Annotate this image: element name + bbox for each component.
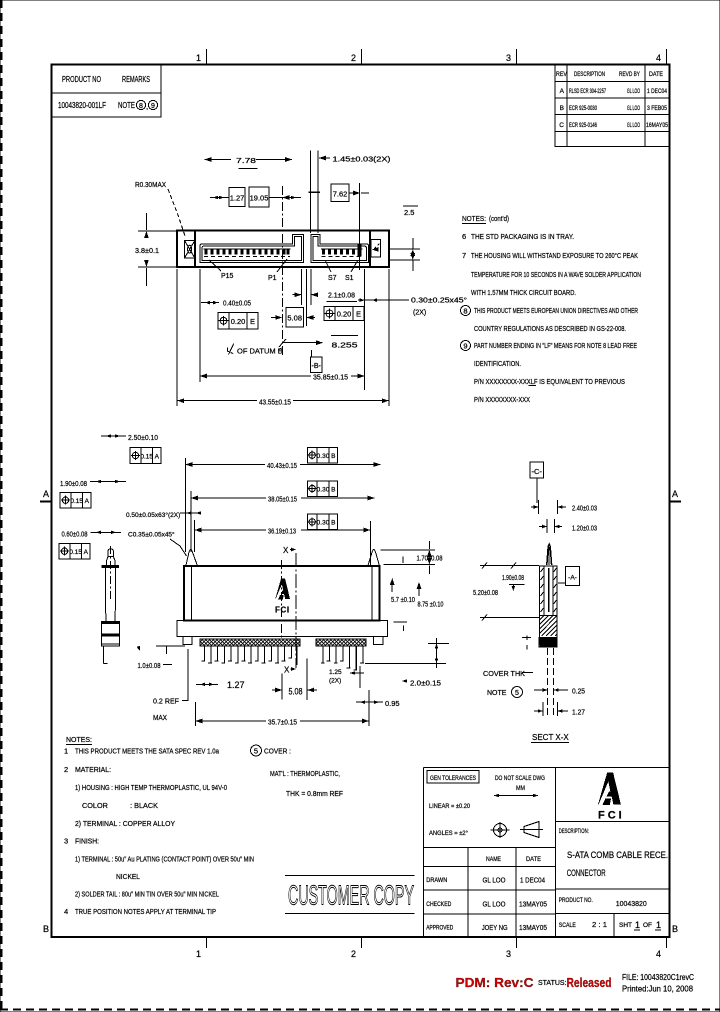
svg-text:0.30: 0.30 <box>317 520 330 527</box>
svg-text:19.05: 19.05 <box>250 194 269 203</box>
svg-text:1: 1 <box>196 53 201 63</box>
collar <box>102 565 120 568</box>
svg-text:,: , <box>146 102 148 111</box>
svg-text:(2X): (2X) <box>329 678 341 685</box>
svg-text:2: 2 <box>351 53 356 63</box>
svg-text:E: E <box>250 317 255 326</box>
dim 35.85 <box>199 269 201 382</box>
left extension lines <box>184 458 186 552</box>
svg-text:ECR 925-0146: ECR 925-0146 <box>569 122 597 129</box>
svg-text:1.70±0.08: 1.70±0.08 <box>417 556 443 563</box>
svg-text:A: A <box>560 88 565 95</box>
svg-text:C0.35±0.05x45°: C0.35±0.05x45° <box>128 531 175 539</box>
dim 0.40+-0.05 <box>201 302 219 304</box>
right pins <box>321 646 364 670</box>
svg-text:THE HOUSING WILL WITHSTAND EXP: THE HOUSING WILL WITHSTAND EXPOSURE TO 2… <box>471 251 638 260</box>
svg-text:0.40±0.05: 0.40±0.05 <box>223 299 251 308</box>
svg-text:10043820-001LF: 10043820-001LF <box>58 101 106 110</box>
right cavity (signal) slot, double outline <box>311 234 369 262</box>
svg-text:LINEAR = ±0.20: LINEAR = ±0.20 <box>429 803 470 810</box>
svg-text:1.27: 1.27 <box>227 680 245 690</box>
solder tail strips (hatched) <box>200 639 366 646</box>
svg-text:IDENTIFICATION.: IDENTIFICATION. <box>474 359 521 368</box>
svg-text:35.85±0.15: 35.85±0.15 <box>313 373 348 382</box>
svg-text:THIS PRODUCT MEETS EUROPEAN UN: THIS PRODUCT MEETS EUROPEAN UNION DIRECT… <box>474 306 638 315</box>
svg-text:9: 9 <box>151 103 155 110</box>
svg-text:A: A <box>43 489 49 499</box>
svg-text:GL LOO: GL LOO <box>483 902 506 909</box>
dim 1.20 <box>546 519 548 533</box>
svg-text:PRODUCT NO: PRODUCT NO <box>62 75 101 84</box>
pin tip <box>547 544 552 565</box>
svg-text:R0.30MAX: R0.30MAX <box>135 180 166 189</box>
svg-text:B: B <box>331 453 335 460</box>
right end cap <box>369 231 371 268</box>
dim 7.78 <box>205 157 212 162</box>
svg-text:1.0±0.08: 1.0±0.08 <box>138 661 161 670</box>
svg-text:ECR 925-0030: ECR 925-0030 <box>569 105 597 112</box>
svg-text:NOTE: NOTE <box>487 690 507 697</box>
position frame 0.20 E (left) <box>218 313 258 330</box>
svg-text:13MAY05: 13MAY05 <box>519 902 547 909</box>
right flange step lines <box>393 621 407 623</box>
svg-text:REV: REV <box>556 71 568 78</box>
cover note <box>251 745 262 756</box>
centerline and section line <box>281 560 283 640</box>
svg-text:2) SOLDER TAIL : 80u" MIN TIN: 2) SOLDER TAIL : 80u" MIN TIN OVER 50u" … <box>75 890 219 899</box>
svg-text:SCALE: SCALE <box>559 922 577 929</box>
third angle projection symbols <box>494 824 507 837</box>
dim 35.7 <box>196 720 267 722</box>
svg-text:FCI: FCI <box>598 810 625 822</box>
svg-text:MAT'L : THERMOPLASTIC,: MAT'L : THERMOPLASTIC, <box>270 769 340 778</box>
svg-text:WITH 1.57MM THICK CIRCUIT BOAR: WITH 1.57MM THICK CIRCUIT BOARD. <box>471 288 576 297</box>
svg-text:7: 7 <box>462 251 466 260</box>
name/date table <box>423 847 555 849</box>
flange tabs <box>183 637 192 645</box>
left punched dashed edge <box>1 0 3 1012</box>
svg-text:TEMPERATURE FOR 10 SECONDS IN: TEMPERATURE FOR 10 SECONDS IN A WAVE SOL… <box>471 270 641 279</box>
svg-text:ANGLES = ±2°: ANGLES = ±2° <box>429 829 468 837</box>
zone row labels <box>40 489 681 934</box>
signal pin strip with teeth <box>321 248 363 250</box>
svg-text:A: A <box>155 454 160 461</box>
svg-text:2: 2 <box>64 765 68 774</box>
svg-text:CONNECTOR: CONNECTOR <box>567 868 606 878</box>
svg-text:RLSD ECR 304-2257: RLSD ECR 304-2257 <box>569 88 606 95</box>
zone ticks & labels top <box>196 49 667 65</box>
svg-text:-A-: -A- <box>568 575 577 582</box>
cover body <box>540 566 558 616</box>
svg-text:NICKEL: NICKEL <box>116 872 140 881</box>
svg-text:MATERIAL:: MATERIAL: <box>75 765 111 774</box>
svg-text:6: 6 <box>462 232 466 241</box>
svg-text:-C-: -C- <box>531 467 542 476</box>
svg-text:1.90±0.08: 1.90±0.08 <box>502 575 524 582</box>
svg-text:5.7 ±0.10: 5.7 ±0.10 <box>391 597 415 604</box>
svg-text:DO NOT SCALE DWG: DO NOT SCALE DWG <box>495 775 545 782</box>
svg-text:THIS PRODUCT MEETS THE SATA SP: THIS PRODUCT MEETS THE SATA SPEC REV 1.0… <box>75 747 220 756</box>
svg-text:5.08: 5.08 <box>287 314 302 323</box>
svg-text:1) TERMINAL : 50u" Au PLATING: 1) TERMINAL : 50u" Au PLATING (CONTACT P… <box>75 855 254 864</box>
power pin strip with teeth <box>204 248 291 250</box>
svg-text:5.08: 5.08 <box>289 687 303 697</box>
svg-text:THK = 0.8mm REF: THK = 0.8mm REF <box>286 789 343 798</box>
svg-text:C: C <box>559 122 564 129</box>
svg-text:8.255: 8.255 <box>332 341 358 350</box>
svg-text:8.75 ±0.10: 8.75 ±0.10 <box>418 602 444 609</box>
svg-text:Released: Released <box>567 975 612 990</box>
datum A flag <box>566 567 580 586</box>
svg-text:S-ATA COMB CABLE RECE.: S-ATA COMB CABLE RECE. <box>567 850 668 860</box>
svg-text:1.20±0.03: 1.20±0.03 <box>572 524 597 533</box>
svg-text:REVD BY: REVD BY <box>619 71 640 78</box>
zone ticks & labels bottom <box>196 937 667 959</box>
svg-text:2.40±0.03: 2.40±0.03 <box>572 504 597 513</box>
revision table top-right <box>555 65 670 147</box>
svg-text:COVER :: COVER : <box>264 747 291 756</box>
svg-text:0.15: 0.15 <box>69 549 82 556</box>
svg-text:0.50±0.05x63°(2X): 0.50±0.05x63°(2X) <box>126 511 180 519</box>
svg-text:APPROVED: APPROVED <box>426 926 454 932</box>
svg-text:1: 1 <box>656 920 661 930</box>
svg-text:P1: P1 <box>268 275 277 282</box>
dim 1.27 bottom <box>196 683 218 685</box>
svg-text:1.90±0.08: 1.90±0.08 <box>60 479 87 488</box>
svg-text:SHT: SHT <box>619 922 632 929</box>
dim 8.255 <box>279 339 286 347</box>
left end cap <box>194 231 196 268</box>
frame 0.15 A (mid) <box>60 493 91 509</box>
svg-text:PRODUCT NO.: PRODUCT NO. <box>559 897 593 904</box>
dim 40.43 <box>185 464 265 466</box>
svg-text:2.1±0.08: 2.1±0.08 <box>328 291 355 300</box>
FCI logo on body <box>275 578 290 599</box>
svg-text:3: 3 <box>64 837 68 846</box>
svg-text:OF DATUM B: OF DATUM B <box>237 347 283 356</box>
svg-text:1: 1 <box>196 949 201 959</box>
svg-text:COVER THK: COVER THK <box>483 671 525 678</box>
svg-text:4: 4 <box>656 53 661 63</box>
svg-text:1.27: 1.27 <box>230 194 245 203</box>
svg-text:A: A <box>85 498 90 505</box>
gap extension lines <box>300 269 302 305</box>
centerline datum B <box>281 186 283 355</box>
svg-text:0.30: 0.30 <box>317 453 330 460</box>
dim 2.5 right cap <box>389 248 420 250</box>
svg-text:B: B <box>672 924 678 934</box>
hatched base <box>540 616 558 638</box>
dim 1.27 <box>542 702 544 716</box>
datum B box <box>311 357 323 373</box>
dim 1.70 right <box>381 549 435 551</box>
svg-text:10043820: 10043820 <box>616 899 647 908</box>
svg-text:CUSTOMER COPY: CUSTOMER COPY <box>288 880 414 911</box>
svg-text:PART NUMBER ENDING IN "LF" MEA: PART NUMBER ENDING IN "LF" MEANS FOR NOT… <box>474 341 637 350</box>
svg-text:1.27: 1.27 <box>572 708 585 717</box>
svg-text:7.78: 7.78 <box>236 156 256 165</box>
connector body outline <box>177 231 389 268</box>
boxed dim 1.27 / 19.05 <box>210 197 229 199</box>
svg-text:4: 4 <box>656 949 661 959</box>
svg-text:B: B <box>560 105 564 112</box>
datum C box <box>530 462 544 478</box>
svg-text:0.95: 0.95 <box>385 699 400 708</box>
outer lines <box>422 768 424 938</box>
svg-text:2 : 1: 2 : 1 <box>592 920 607 929</box>
svg-text:GL LOO: GL LOO <box>627 88 640 95</box>
boxed dim 7.62 <box>331 184 349 202</box>
svg-text:2) TERMINAL : COPPER ALLOY: 2) TERMINAL : COPPER ALLOY <box>75 819 175 828</box>
svg-text:3 FEB05: 3 FEB05 <box>647 105 667 112</box>
svg-text:REMARKS: REMARKS <box>122 75 150 84</box>
svg-text:DRAWN: DRAWN <box>426 878 447 884</box>
svg-text:1: 1 <box>64 747 68 756</box>
main border frame <box>52 65 670 938</box>
product table top-left <box>52 65 162 118</box>
shaft <box>105 568 107 622</box>
svg-text:1 DEC04: 1 DEC04 <box>647 88 667 95</box>
svg-text:FCI: FCI <box>275 606 290 615</box>
svg-text:COLOR : BLACK: COLOR : BLACK <box>82 801 158 810</box>
dim 1.45+-0.03(2X) <box>319 156 326 161</box>
svg-text:8: 8 <box>139 103 143 110</box>
svg-text:9: 9 <box>463 342 467 351</box>
flange <box>177 621 387 637</box>
svg-text:NOTES:: NOTES: <box>462 214 486 223</box>
svg-text:DESCRIPTION: DESCRIPTION <box>574 71 605 78</box>
svg-text:FILE: 10043820C1revC: FILE: 10043820C1revC <box>622 973 694 982</box>
svg-text:1.45±0.03(2X): 1.45±0.03(2X) <box>333 157 391 164</box>
svg-text:1 DEC04: 1 DEC04 <box>520 878 545 885</box>
svg-text:DATE: DATE <box>526 856 542 863</box>
svg-text:5: 5 <box>254 747 258 756</box>
svg-text:GL LOO: GL LOO <box>483 878 506 885</box>
svg-text:7.62: 7.62 <box>333 190 348 199</box>
svg-text:0.20: 0.20 <box>231 317 246 326</box>
svg-text:1: 1 <box>635 920 640 930</box>
svg-text:Printed:Jun 10, 2008: Printed:Jun 10, 2008 <box>622 985 694 994</box>
svg-text:16MAY05: 16MAY05 <box>646 122 668 129</box>
svg-text:X: X <box>284 666 290 675</box>
left pins <box>204 646 296 665</box>
dim 5.7 / 8.75 <box>391 580 393 592</box>
left extension lines <box>480 565 539 567</box>
tail <box>103 646 105 664</box>
svg-text:NOTE: NOTE <box>118 101 135 110</box>
svg-text:3.8±0.1: 3.8±0.1 <box>135 246 159 255</box>
guide wings <box>186 550 198 567</box>
svg-text:3: 3 <box>506 949 511 959</box>
base block <box>102 622 120 647</box>
svg-text:1.25: 1.25 <box>329 669 342 676</box>
body <box>184 566 379 621</box>
svg-text:GEN TOLERANCES: GEN TOLERANCES <box>430 775 477 782</box>
dim 5.08 <box>281 673 283 699</box>
svg-text:43.55±0.15: 43.55±0.15 <box>259 398 291 407</box>
dim 36.19 <box>195 529 266 531</box>
svg-text:0.2 REF: 0.2 REF <box>153 697 179 706</box>
CL OF DATUM B <box>227 344 234 355</box>
svg-text:0.20: 0.20 <box>337 310 352 319</box>
small tick marks left of hatch <box>526 636 528 641</box>
position frame 0.20 E (right) <box>324 307 364 321</box>
extension lines key post <box>310 151 312 234</box>
svg-text:8: 8 <box>463 307 467 316</box>
svg-text:DESCRIPTION:: DESCRIPTION: <box>559 829 589 835</box>
svg-text:A: A <box>672 489 678 499</box>
svg-text:13MAY05: 13MAY05 <box>519 925 547 932</box>
svg-text:A: A <box>84 549 89 556</box>
svg-text:0.60±0.08: 0.60±0.08 <box>62 530 88 539</box>
svg-text:GL LOO: GL LOO <box>627 105 640 112</box>
svg-text:2: 2 <box>351 949 356 959</box>
svg-text:0.30±0.25x45°: 0.30±0.25x45° <box>411 297 467 305</box>
FCI logo <box>598 773 621 806</box>
dim 0.25 <box>534 689 548 691</box>
svg-text:THE STD PACKAGING IS IN TRAY.: THE STD PACKAGING IS IN TRAY. <box>471 232 574 241</box>
svg-text:5: 5 <box>515 690 519 697</box>
svg-text:TRUE POSITION NOTES APPLY AT T: TRUE POSITION NOTES APPLY AT TERMINAL TI… <box>75 907 216 916</box>
svg-text:S7: S7 <box>328 275 337 282</box>
pin dome tip <box>108 549 113 557</box>
dim 2.0 <box>428 643 449 645</box>
svg-text:0.15: 0.15 <box>140 454 153 461</box>
svg-text:P/N XXXXXXXX-XXXLF IS EQUIVALE: P/N XXXXXXXX-XXXLF IS EQUIVALENT TO PREV… <box>474 377 625 386</box>
bottom dashed tear line <box>0 1009 720 1011</box>
svg-text:4: 4 <box>64 907 68 916</box>
svg-text:38.05±0.15: 38.05±0.15 <box>268 495 297 504</box>
svg-text:SECT X-X: SECT X-X <box>532 733 569 742</box>
svg-text:(2X): (2X) <box>413 310 426 317</box>
svg-text:P/N XXXXXXXX-XXX: P/N XXXXXXXX-XXX <box>474 395 530 404</box>
svg-text:MAX: MAX <box>153 713 167 722</box>
svg-text:P15: P15 <box>221 273 234 280</box>
svg-text:GL LOO: GL LOO <box>627 122 640 129</box>
svg-text:36.19±0.13: 36.19±0.13 <box>268 527 296 536</box>
dim 43.55 <box>176 269 178 406</box>
svg-text:40.43±0.15: 40.43±0.15 <box>267 461 297 470</box>
tolerances area <box>427 771 479 784</box>
svg-text:FINISH:: FINISH: <box>75 837 99 846</box>
chamfer leader 0.30 <box>358 299 409 301</box>
dim 2.40 <box>538 500 540 514</box>
svg-text:E: E <box>356 310 361 319</box>
svg-text:DATE: DATE <box>649 71 664 78</box>
boxed dim 6.08 <box>271 317 282 319</box>
left cavity (power) L-shaped slot, double outline <box>200 234 304 262</box>
dim 0.95 <box>356 701 383 703</box>
svg-text:CHECKED: CHECKED <box>426 902 452 908</box>
svg-text:35.7±0.15: 35.7±0.15 <box>268 718 297 727</box>
svg-text:X: X <box>283 546 289 555</box>
svg-text:OF: OF <box>643 922 652 929</box>
frame 0.15 A (top) <box>130 448 161 464</box>
svg-text:-B-: -B- <box>312 363 322 370</box>
svg-text:(cont'd): (cont'd) <box>489 214 509 223</box>
svg-text:B: B <box>331 520 335 527</box>
svg-text:1) HOUSING : HIGH TEMP THERMOP: 1) HOUSING : HIGH TEMP THERMOPLASTIC, UL… <box>75 783 227 792</box>
svg-text:MM: MM <box>516 785 525 792</box>
svg-text:0.15: 0.15 <box>70 498 83 505</box>
dim 38.05 <box>191 497 266 499</box>
svg-text:NAME: NAME <box>486 856 502 863</box>
svg-text:NOTES:: NOTES: <box>66 735 92 744</box>
dim 2.1+-0.08 <box>293 294 302 296</box>
svg-text:STATUS:: STATUS: <box>538 980 567 987</box>
svg-text:S1: S1 <box>345 275 354 282</box>
dim 3.8 +-0.1 left <box>138 230 177 232</box>
svg-text:JOEY NG: JOEY NG <box>482 925 508 932</box>
svg-text:PDM: Rev:C: PDM: Rev:C <box>456 975 535 990</box>
svg-text:2.50±0.10: 2.50±0.10 <box>128 433 158 442</box>
svg-text:5.20±0.08: 5.20±0.08 <box>473 590 498 597</box>
svg-text:COUNTRY REGULATIONS AS DESCRIB: COUNTRY REGULATIONS AS DESCRIBED IN GS-2… <box>474 324 626 333</box>
svg-text:B: B <box>43 924 49 934</box>
svg-text:0.25: 0.25 <box>572 687 585 696</box>
bottom center dashed lines <box>547 648 549 718</box>
svg-text:2.5: 2.5 <box>404 208 414 217</box>
svg-text:2.0±0.15: 2.0±0.15 <box>410 679 441 688</box>
svg-text:3: 3 <box>506 53 511 63</box>
svg-text:0.30: 0.30 <box>317 486 330 493</box>
frame 0.15 A (bottom) <box>59 544 90 560</box>
svg-text:B: B <box>331 486 335 493</box>
